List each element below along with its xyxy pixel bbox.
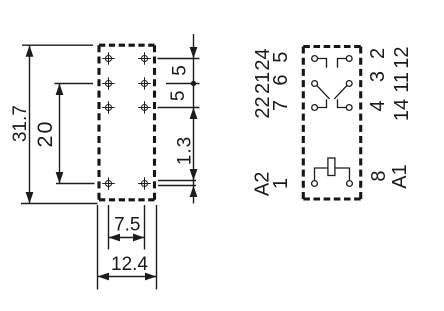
- dimension 31.7 extension line bottom: [21, 203, 98, 205]
- svg-text:3: 3: [367, 71, 389, 82]
- dimension chain dot at row2: [191, 81, 196, 86]
- coil element body: [328, 158, 335, 176]
- dimension 20 arrow up: [56, 84, 64, 96]
- dimension 12.4 extension line right: [156, 205, 158, 290]
- pin hole cross row3 left: [102, 101, 115, 114]
- dimension 7.5 arrow right: [133, 234, 145, 242]
- movable contact arm right (pin 12/4): [334, 81, 352, 99]
- dimension 20 extension line top: [55, 83, 94, 85]
- dimension 5/5 extension line row1: [158, 58, 200, 60]
- dimension 20 arrow down: [56, 172, 64, 184]
- svg-text:A1: A1: [389, 164, 411, 188]
- svg-text:7: 7: [270, 100, 292, 111]
- dimension 31.7 arrow down: [26, 192, 34, 204]
- dimension 5/5 extension line row3: [158, 107, 200, 109]
- svg-text:5: 5: [168, 91, 189, 102]
- dimension 31.7 extension line top: [22, 44, 93, 46]
- dimension 12.4 arrow right: [145, 273, 157, 281]
- svg-text:7.5: 7.5: [114, 215, 140, 236]
- dimension 31.7 line: [29, 45, 31, 203]
- dimension 5 arrow down at row1: [190, 47, 198, 59]
- NO contact terminal right: [338, 99, 353, 110]
- NC contact terminal right (pin 11/3): [338, 56, 353, 68]
- pin hole cross row1 right: [138, 52, 151, 65]
- dimension 5 arrow up at row3: [190, 108, 198, 120]
- dimension 12.4 extension line left: [97, 205, 99, 290]
- svg-text:14: 14: [391, 99, 413, 121]
- schematic dashed outline: [303, 47, 360, 200]
- dimension 1.3 extension line top: [158, 180, 196, 182]
- svg-text:1: 1: [270, 178, 292, 189]
- dimension 20 extension line bottom: [56, 183, 95, 185]
- svg-text:4: 4: [367, 100, 389, 111]
- dimension 7.5 arrow left: [109, 234, 121, 242]
- dimension 1.3 extension line bottom: [158, 185, 196, 187]
- svg-text:6: 6: [270, 75, 292, 86]
- dimension 7.5 extension line right: [144, 205, 146, 250]
- NC contact terminal left (pin 21/6): [312, 56, 327, 68]
- svg-text:12: 12: [391, 46, 413, 68]
- svg-text:5: 5: [170, 65, 191, 76]
- dimension 1.3 arrow up: [190, 186, 198, 198]
- svg-text:12.4: 12.4: [111, 254, 148, 275]
- relay body dashed outline: [99, 45, 155, 200]
- dimension 12.4 arrow left: [98, 273, 110, 281]
- dimension 7.5 extension line left: [108, 205, 110, 250]
- dimension chain vertical line: [193, 34, 195, 204]
- dimension 31.7 arrow up: [26, 45, 34, 57]
- dimension 12.4 line: [98, 276, 157, 278]
- pin hole cross bottom right: [138, 177, 151, 190]
- pin hole cross bottom left: [102, 177, 115, 190]
- pin hole cross row1 left: [102, 52, 115, 65]
- dimension 1.3 arrow down: [190, 169, 198, 181]
- dimension 20 line: [59, 84, 61, 184]
- svg-text:8: 8: [368, 170, 390, 181]
- svg-text:5: 5: [270, 52, 292, 63]
- svg-text:11: 11: [391, 72, 413, 93]
- pin hole cross row2 left: [102, 77, 115, 90]
- svg-text:31.7: 31.7: [10, 105, 31, 142]
- dimension 7.5 line: [109, 237, 145, 239]
- pin hole cross row3 right: [138, 101, 151, 114]
- coil terminal A1 circle: [347, 181, 353, 187]
- movable contact arm left (pin 22/7): [312, 81, 330, 99]
- svg-text:20: 20: [33, 120, 57, 148]
- svg-text:2: 2: [367, 48, 389, 59]
- wire coil to terminal A2: [315, 168, 328, 181]
- wire coil to terminal A1: [335, 168, 350, 181]
- dimension 5/5 extension line row2: [166, 83, 200, 85]
- coil terminal A2 circle: [312, 181, 318, 187]
- svg-text:1.3: 1.3: [174, 136, 195, 165]
- pin hole cross row2 right: [138, 77, 151, 90]
- NO contact terminal left (pin 24/5... ): [312, 99, 327, 110]
